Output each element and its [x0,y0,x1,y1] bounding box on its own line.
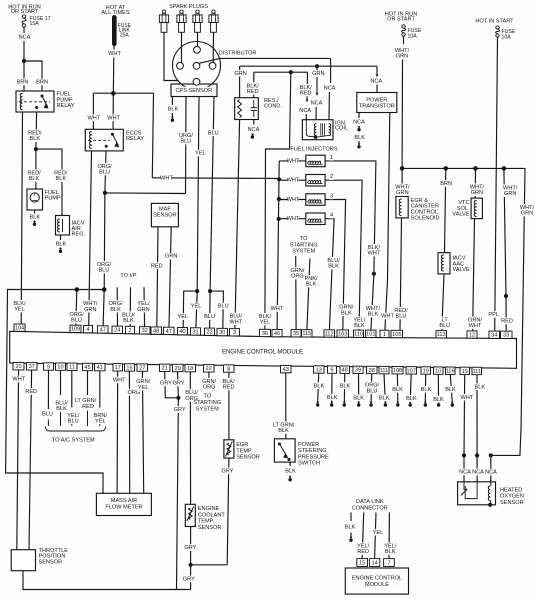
svg-text:BLK: BLK [278,428,289,434]
svg-text:COND.: COND. [264,103,282,109]
svg-text:ORG: ORG [291,274,304,280]
svg-text:RED: RED [247,89,259,95]
svg-text:45: 45 [84,365,90,371]
svg-text:BLU: BLU [98,268,109,274]
svg-text:GRN: GRN [84,307,96,313]
svg-text:10: 10 [435,368,441,374]
svg-text:GRN: GRN [504,191,516,197]
svg-text:48: 48 [342,368,348,374]
svg-text:WHT: WHT [108,51,121,57]
svg-text:WHT: WHT [12,377,25,383]
svg-text:GRY: GRY [173,380,185,386]
svg-text:YEL: YEL [138,385,149,391]
svg-text:GRY: GRY [174,407,186,413]
svg-text:FUEL INJECTORS: FUEL INJECTORS [290,147,338,153]
svg-text:GRY: GRY [183,576,195,582]
svg-text:16: 16 [126,365,132,371]
svg-text:113: 113 [437,332,446,338]
svg-text:SENSOR: SENSOR [198,525,222,531]
svg-text:BLK: BLK [123,318,134,324]
svg-text:YEL: YEL [191,304,202,310]
svg-text:3: 3 [233,330,236,336]
svg-text:110: 110 [354,332,363,338]
svg-text:BRN: BRN [36,79,48,85]
svg-text:27: 27 [139,365,145,371]
svg-text:112: 112 [325,331,334,337]
svg-text:ORG: ORG [128,390,141,396]
svg-text:HEATED: HEATED [500,487,522,493]
svg-text:BLK: BLK [341,310,352,316]
svg-text:15A: 15A [30,21,40,27]
svg-text:24: 24 [114,328,120,334]
svg-text:1: 1 [383,332,386,338]
svg-text:HOT IN START: HOT IN START [475,18,514,24]
svg-text:BLK: BLK [56,406,67,412]
svg-text:BLK: BLK [392,387,403,393]
svg-text:107: 107 [407,368,416,374]
svg-text:108: 108 [393,368,402,374]
svg-text:VALVE: VALVE [453,267,470,273]
svg-text:NCA: NCA [324,85,336,91]
svg-text:2: 2 [128,328,131,334]
svg-text:9: 9 [47,364,50,370]
svg-text:17: 17 [115,365,121,371]
svg-text:WHT: WHT [381,314,394,320]
svg-text:WHT: WHT [287,197,300,203]
svg-text:BLU: BLU [218,304,229,310]
svg-text:41: 41 [97,365,103,371]
svg-text:WHT: WHT [287,158,300,164]
svg-text:BLK: BLK [30,136,41,142]
svg-text:STARTING: STARTING [290,242,318,248]
svg-text:YEL: YEL [95,418,106,424]
svg-text:GRN: GRN [234,71,246,77]
svg-text:BLU: BLU [68,418,79,424]
svg-text:BLK: BLK [306,282,317,288]
svg-text:RELAY: RELAY [126,136,144,142]
svg-text:19: 19 [423,368,429,374]
svg-text:COOLANT: COOLANT [198,512,226,518]
svg-text:GRN: GRN [396,190,408,196]
svg-text:DISTRIBUTOR: DISTRIBUTOR [219,51,257,57]
svg-text:GRN: GRN [312,71,324,77]
svg-text:10: 10 [57,365,63,371]
svg-text:BLK: BLK [285,468,296,474]
svg-text:BLK: BLK [354,135,365,141]
svg-text:BLU: BLU [204,314,215,320]
svg-text:PRESSURE: PRESSURE [298,454,329,460]
svg-text:WHT: WHT [271,306,284,312]
svg-text:POWER: POWER [366,97,387,103]
svg-text:BLK: BLK [353,396,364,402]
svg-text:SYSTEM: SYSTEM [292,249,315,255]
svg-text:39: 39 [355,368,361,374]
svg-text:111: 111 [473,369,482,375]
svg-text:OXYGEN: OXYGEN [500,494,524,500]
svg-text:BLK: BLK [445,387,456,393]
svg-text:33: 33 [503,333,509,339]
svg-text:OR START: OR START [11,9,39,15]
svg-text:STEERING: STEERING [298,448,327,454]
svg-text:30: 30 [219,330,225,336]
svg-text:BLK: BLK [475,384,486,390]
svg-text:BLU: BLU [180,139,191,145]
svg-text:22: 22 [206,366,212,372]
svg-text:BLK: BLK [56,241,67,247]
svg-text:ORG: ORG [203,385,216,391]
svg-text:18: 18 [187,366,193,372]
svg-text:BLU: BLU [42,412,53,418]
svg-text:6: 6 [330,367,333,373]
svg-text:FLOW METER: FLOW METER [105,504,142,510]
svg-text:47: 47 [166,329,172,335]
svg-text:CONNECTOR: CONNECTOR [352,506,388,512]
svg-text:BLK: BLK [345,525,356,531]
svg-text:MODULE: MODULE [365,582,389,588]
svg-text:NCA: NCA [19,34,31,40]
svg-text:YEL: YEL [373,530,384,536]
svg-text:12: 12 [469,332,475,338]
svg-text:BLK: BLK [30,214,41,220]
svg-text:ENGINE CONTROL: ENGINE CONTROL [352,575,402,581]
svg-text:POWER: POWER [298,442,319,448]
svg-text:BLU: BLU [99,170,110,176]
svg-text:105: 105 [392,332,401,338]
svg-text:WHT: WHT [229,319,242,325]
svg-text:34: 34 [491,333,497,339]
svg-text:TO I/P: TO I/P [120,273,136,279]
svg-text:NCA: NCA [353,119,365,125]
svg-text:115: 115 [302,331,311,337]
svg-text:48: 48 [153,328,159,334]
svg-text:BLK: BLK [433,397,444,403]
svg-text:GRY: GRY [221,468,233,474]
svg-text:NCA: NCA [370,78,382,84]
svg-text:116: 116 [446,369,455,375]
svg-text:CPS SENSOR: CPS SENSOR [175,88,212,94]
svg-text:NCA: NCA [472,470,484,476]
svg-text:YEL: YEL [195,151,206,157]
svg-text:EGR: EGR [236,442,248,448]
svg-text:4: 4 [86,327,89,333]
svg-text:104: 104 [15,325,24,331]
svg-text:BLK: BLK [327,395,338,401]
svg-text:REG.: REG. [72,231,86,237]
svg-text:TEMP.: TEMP. [198,519,215,525]
svg-text:WHT: WHT [88,115,101,121]
svg-text:SENSOR: SENSOR [500,500,524,506]
svg-text:35: 35 [293,331,299,337]
svg-text:RED: RED [25,389,37,395]
svg-text:40: 40 [179,329,185,335]
svg-text:BLK: BLK [29,176,40,182]
svg-text:BLK: BLK [56,176,67,182]
svg-text:SENSOR: SENSOR [153,213,177,219]
svg-text:10A: 10A [502,34,512,40]
svg-text:15: 15 [359,560,365,566]
svg-text:29: 29 [175,366,181,372]
svg-text:13: 13 [316,367,322,373]
svg-text:RED: RED [223,385,235,391]
svg-text:BLK: BLK [368,312,379,318]
svg-text:WHT: WHT [113,377,126,383]
svg-text:RED: RED [151,263,163,269]
svg-text:4: 4 [330,213,333,219]
svg-text:1: 1 [330,155,333,161]
svg-text:NCA: NCA [299,108,311,114]
svg-text:GRN: GRN [165,254,177,260]
svg-text:WHT: WHT [461,395,474,401]
svg-text:BLK: BLK [421,387,432,393]
svg-text:SWITCH: SWITCH [298,460,320,466]
svg-text:RED: RED [357,549,369,555]
svg-text:TO: TO [300,236,308,242]
svg-text:BLK: BLK [406,396,417,402]
svg-text:GRY: GRY [184,545,196,551]
svg-text:32: 32 [142,328,148,334]
svg-text:43: 43 [283,367,289,373]
svg-text:38: 38 [369,368,375,374]
svg-text:10A: 10A [408,33,418,39]
svg-text:COIL: COIL [335,126,348,132]
svg-text:SOLENOID: SOLENOID [411,215,440,221]
svg-text:BLK: BLK [314,383,325,389]
svg-text:BLK: BLK [340,383,351,389]
svg-text:46: 46 [274,331,280,337]
svg-text:WHT: WHT [160,175,173,181]
svg-text:BLU: BLU [71,318,82,324]
svg-text:BLK: BLK [328,264,339,270]
svg-text:VALVE: VALVE [452,211,469,217]
svg-text:BLK: BLK [110,307,121,313]
svg-text:21: 21 [162,366,168,372]
svg-text:103: 103 [338,331,347,337]
svg-text:DATA LINK: DATA LINK [356,499,384,505]
svg-text:STARTING: STARTING [193,400,221,406]
svg-text:31: 31 [192,329,198,335]
svg-text:YEL: YEL [178,314,189,320]
svg-text:NCA: NCA [485,470,497,476]
svg-text:WHT: WHT [287,216,300,222]
svg-text:NCA: NCA [311,100,323,106]
svg-text:NCA: NCA [247,127,259,133]
svg-text:BLK: BLK [354,323,365,329]
svg-text:109: 109 [71,327,80,333]
svg-text:YEL: YEL [14,307,25,313]
svg-text:RED: RED [300,90,312,96]
svg-text:20: 20 [15,364,21,370]
svg-text:YEL: YEL [260,320,271,326]
svg-text:NCA: NCA [459,470,471,476]
svg-text:WHT: WHT [368,251,381,257]
svg-text:3: 3 [330,193,333,199]
svg-text:25A: 25A [120,32,130,38]
svg-text:MASS AIR: MASS AIR [111,498,137,504]
svg-text:RED: RED [82,404,94,410]
svg-text:BLK: BLK [379,396,390,402]
svg-text:ENGINE CONTROL MODULE: ENGINE CONTROL MODULE [222,350,303,356]
svg-text:GRN: GRN [471,190,483,196]
svg-text:RELAY: RELAY [57,103,75,109]
svg-text:GRY: GRY [160,380,172,386]
svg-text:WHT: WHT [287,178,300,184]
svg-text:37: 37 [29,364,35,370]
svg-text:BLK: BLK [168,106,179,112]
svg-text:PUMP: PUMP [45,195,61,201]
svg-text:SENSOR: SENSOR [39,560,63,566]
svg-text:WHT: WHT [469,323,482,329]
svg-text:BLU: BLU [208,130,219,136]
svg-text:BLU: BLU [439,323,450,329]
svg-text:BLK: BLK [385,549,396,555]
svg-text:GRN: GRN [137,307,149,313]
svg-text:SPARK PLUGS: SPARK PLUGS [169,4,208,10]
svg-text:GRN: GRN [521,211,533,217]
svg-text:BLU: BLU [367,388,378,394]
svg-text:OR START: OR START [387,16,415,22]
svg-text:8: 8 [227,366,230,372]
svg-text:11: 11 [69,365,75,371]
svg-text:BLU: BLU [396,314,407,320]
svg-text:RED: RED [501,318,513,324]
svg-text:36: 36 [262,331,268,337]
svg-text:22: 22 [206,330,212,336]
svg-text:7: 7 [387,560,390,566]
svg-text:PPL: PPL [488,312,499,318]
svg-text:TO: TO [203,393,211,399]
svg-text:ENGINE: ENGINE [198,506,220,512]
svg-text:TEMP.: TEMP. [236,448,253,454]
svg-text:111: 111 [380,368,389,374]
svg-text:14: 14 [371,560,377,566]
svg-text:TRANSISTOR: TRANSISTOR [359,103,395,109]
svg-text:TO A/C SYSTEM: TO A/C SYSTEM [52,437,95,443]
svg-text:101: 101 [366,332,375,338]
svg-text:ALL TIMES: ALL TIMES [101,10,130,16]
svg-text:SYSTEM: SYSTEM [196,406,219,412]
svg-text:WHT: WHT [107,115,120,121]
svg-text:GRN: GRN [396,54,408,60]
svg-text:2: 2 [330,174,333,180]
svg-text:BRN: BRN [17,79,29,85]
svg-text:19: 19 [462,369,468,375]
svg-text:BRN: BRN [440,181,452,187]
svg-text:47: 47 [100,327,106,333]
svg-text:SENSOR: SENSOR [236,454,260,460]
